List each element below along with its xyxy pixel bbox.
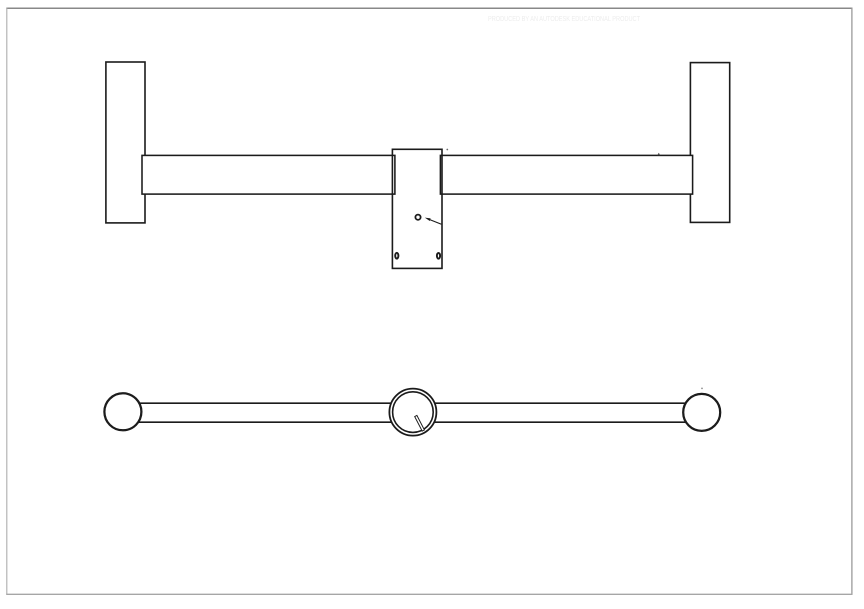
frame top [6, 7, 852, 9]
center plate (front view) [392, 149, 442, 268]
speck near plate top corner [446, 149, 448, 151]
frame bottom [6, 593, 852, 595]
tube top edge (plan view) [123, 402, 702, 404]
right slot hole in plate [437, 253, 440, 259]
left end post (front view) [106, 62, 145, 223]
crossbar right segment (front view) [440, 155, 692, 194]
tube bottom edge (plan view) [123, 421, 702, 423]
centre boss (plan view) [389, 389, 436, 436]
speck above right post [701, 388, 703, 390]
crossbar left segment (front view) [142, 155, 395, 194]
left slot hole in plate [395, 253, 398, 259]
right post (plan view) [683, 393, 721, 431]
frame left [6, 8, 8, 595]
leader line [429, 219, 442, 224]
frame right [851, 8, 853, 595]
keyway slot in centre boss [415, 415, 425, 431]
right end post (front view) [690, 63, 729, 223]
leader arrowhead [425, 218, 431, 221]
svg-text:PRODUCED BY AN AUTODESK EDUCAT: PRODUCED BY AN AUTODESK EDUCATIONAL PROD… [488, 14, 640, 23]
left post (plan view) [104, 393, 142, 431]
tick mark on crossbar top edge [657, 153, 660, 155]
hole in center plate [415, 215, 420, 220]
